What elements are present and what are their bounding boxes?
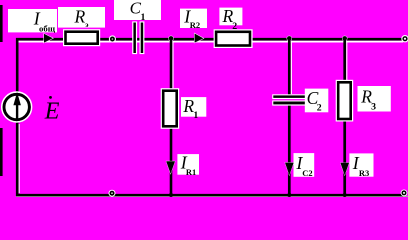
label box Re xyxy=(58,7,105,28)
svg-text:E: E xyxy=(44,99,60,125)
source E1 circle halo xyxy=(2,92,32,122)
label box I_R1 xyxy=(177,154,199,175)
terminal node top right xyxy=(401,35,408,42)
svg-text:C2: C2 xyxy=(302,168,312,178)
label box R2 xyxy=(219,8,242,26)
capacitor C1 plates halo xyxy=(132,21,137,54)
wire R3 branch halo xyxy=(346,42,348,80)
wire bottom horizontal xyxy=(16,194,403,196)
wire left vertical halo xyxy=(18,124,20,193)
label box I_R3 xyxy=(349,153,373,176)
label box I_obsh xyxy=(8,9,57,32)
svg-text:1: 1 xyxy=(193,110,198,121)
resistor R1 halo xyxy=(161,88,180,129)
resistor R2 halo xyxy=(214,29,253,48)
wire left vertical upper xyxy=(16,38,19,94)
svg-text:2: 2 xyxy=(232,21,237,32)
node dot on bottom wire xyxy=(109,190,116,197)
resistor R2 xyxy=(216,32,250,46)
junction R3 branch bottom xyxy=(343,193,347,197)
wire R1 branch upper xyxy=(170,38,173,90)
resistor R3 halo xyxy=(336,80,354,122)
wire R3 branch lower xyxy=(343,120,346,196)
arrow I_R2 on top wire xyxy=(195,34,204,43)
arrow I_R1 down on R1 branch xyxy=(166,161,175,174)
wire bottom edge gray xyxy=(16,196,408,198)
wire R1 branch halo xyxy=(172,42,174,88)
svg-text:1: 1 xyxy=(141,12,146,23)
node dot A on top wire xyxy=(109,35,116,42)
junction node B top of R1 branch xyxy=(169,36,174,41)
junction R1 branch bottom xyxy=(169,193,173,197)
resistor Re xyxy=(66,32,98,44)
wire C2 branch upper xyxy=(288,38,291,96)
wire R1 branch lower xyxy=(170,127,173,196)
source E1 arrow stem xyxy=(16,100,18,120)
wire top horizontal xyxy=(16,38,404,41)
source E1 arrow head xyxy=(13,92,21,105)
resistor Re halo xyxy=(63,29,100,46)
wire left vertical lower xyxy=(16,120,19,196)
capacitor C1 left plate xyxy=(133,23,136,54)
source E1 circle xyxy=(4,94,29,119)
arrow I_C2 down on C2 branch xyxy=(285,163,294,176)
junction node C top of C2 branch xyxy=(287,36,292,41)
svg-text:R1: R1 xyxy=(186,167,196,177)
svg-text:2: 2 xyxy=(317,103,322,114)
junction node D top of R3 branch xyxy=(342,36,347,41)
label E dot xyxy=(49,96,52,99)
svg-text:R2: R2 xyxy=(190,20,200,30)
svg-text:3: 3 xyxy=(371,101,376,112)
label box I_R2 xyxy=(180,9,207,28)
arrow I_obsh on top wire xyxy=(44,34,53,43)
svg-text:R: R xyxy=(74,6,86,26)
wire C2 branch halo xyxy=(290,42,292,94)
resistor R3 xyxy=(338,82,351,119)
resistor R1 xyxy=(163,91,177,127)
capacitor C2 top plate xyxy=(273,95,305,98)
label box C1 xyxy=(114,0,161,20)
label box R1 xyxy=(181,97,206,117)
capacitor C1 right plate xyxy=(141,23,144,54)
terminal node bottom right xyxy=(401,190,408,197)
left edge artifact bar top xyxy=(0,5,3,42)
junction C2 branch bottom xyxy=(287,193,291,197)
capacitor C2 plates halo xyxy=(272,94,306,99)
label box C2 xyxy=(305,89,329,113)
svg-text:общ: общ xyxy=(39,24,56,34)
label box I_C2 xyxy=(294,153,315,177)
left edge artifact bar bottom xyxy=(0,128,3,176)
wire top horizontal halo xyxy=(17,41,403,43)
arrow I_R3 down on R3 branch xyxy=(340,163,349,175)
svg-text:R3: R3 xyxy=(359,168,369,178)
wire C2 branch lower xyxy=(288,104,291,196)
wire R3 branch upper xyxy=(343,38,346,82)
label box R3 xyxy=(358,86,391,112)
svg-text:э: э xyxy=(85,20,88,29)
capacitor C2 bottom plate xyxy=(273,102,305,105)
